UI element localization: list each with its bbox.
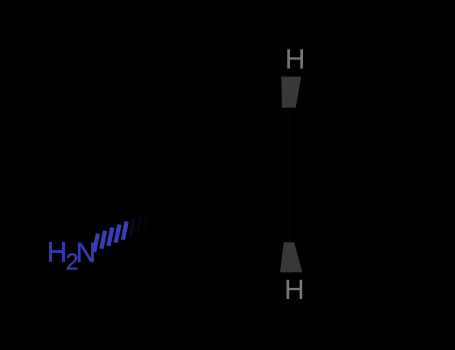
wire: left ring bond from bottom fusion <box>152 136 291 243</box>
wire: ring fusion bond C4a-C8a (central vertical, barely visible) <box>289 108 291 243</box>
wire: left ring bond from top fusion to C2 <box>152 108 291 227</box>
label H2N (amine) <box>47 236 96 274</box>
wedge bond to top H (solid, narrow at ring carbon) <box>281 77 301 108</box>
hashed wedge bond N-C2 (blue half near N, dark half near C) <box>94 212 148 252</box>
svg-text:H: H <box>285 44 305 75</box>
wedge bond to bottom H (solid, narrow at ring carbon) <box>280 242 302 272</box>
wire: left ring far edge <box>151 136 153 227</box>
wire: right ring bond from bottom fusion <box>291 136 429 243</box>
svg-text:N: N <box>76 237 96 268</box>
wire: right ring bond from top fusion (near-black on black) <box>291 108 429 227</box>
svg-text:H: H <box>284 274 304 305</box>
wire: right ring far edge <box>428 136 430 227</box>
svg-text:H: H <box>47 236 67 267</box>
